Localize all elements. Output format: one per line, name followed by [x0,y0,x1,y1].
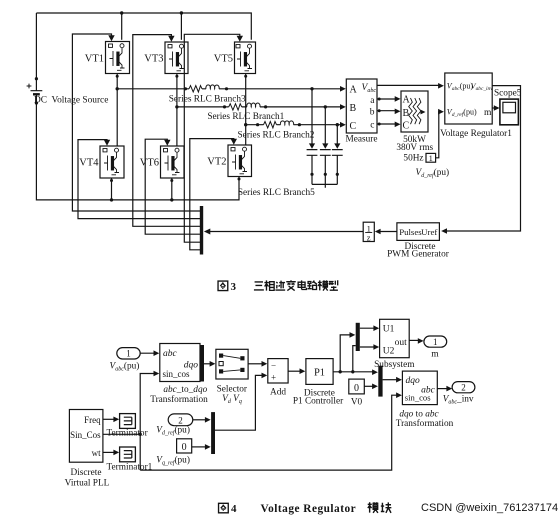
block Measure (three-phase V-I measurement) [345,79,377,145]
port output oval 2 Vabc_inv [443,382,475,406]
port input oval 1 Vabc(pu) [110,348,141,373]
resistor Series RLC Branch1 R [229,104,242,110]
svg-text:C: C [350,121,357,132]
transistor VT5 [214,42,256,74]
svg-text:C: C [403,120,410,131]
svg-text:P1: P1 [314,367,325,378]
svg-text:B: B [350,103,357,114]
svg-text:Terminator1: Terminator1 [107,462,153,472]
svg-text:Measure: Measure [345,135,377,145]
svg-text:Discrete: Discrete [71,468,102,478]
svg-text:B: B [403,108,410,119]
wire phase A to Measure [117,88,343,90]
svg-text:abc_to_dqo: abc_to_dqo [163,385,207,395]
wire mux to dqo input [383,377,402,383]
svg-text:Add: Add [270,388,286,398]
transistor VT6 [140,146,184,178]
wire phase B to Measure [177,106,343,108]
svg-text:Uref: Uref [421,227,437,237]
mux dq0 input bar [378,366,382,397]
wire VT3 collector drop [180,13,182,40]
svg-text:50Hz: 50Hz [403,153,423,163]
node cap B tap [324,105,327,108]
svg-text:Series RLC Branch2: Series RLC Branch2 [238,131,315,141]
wire Measure b to load B [377,109,401,115]
node VT5 emitter port [244,75,247,78]
svg-text:VT4: VT4 [79,158,99,169]
svg-text:Virtual PLL: Virtual PLL [65,479,110,489]
block Scope5 [494,89,522,125]
svg-text:Scope5: Scope5 [494,89,522,99]
wire gate g5 from demux to VT5 [184,34,240,242]
svg-text:V0: V0 [351,397,363,407]
wire bar to Selector [204,361,215,367]
wire constant 1 to Voltage Regulator1 Vd_ref input [436,109,444,158]
wire PWM Pulses to 1/z [375,229,397,235]
svg-text:wt: wt [92,448,101,458]
mux Subsystem input bar [356,323,360,351]
resistor Series RLC Branch2 R [264,122,277,128]
svg-text:1: 1 [433,337,438,347]
node cap A tap [310,87,313,90]
pin VT1 gate arrow [108,35,114,41]
wire DC- to emitter bus [36,103,239,200]
svg-text:1: 1 [429,153,433,163]
svg-text:Series RLC Branch3: Series RLC Branch3 [169,94,246,104]
node branch3 right port [225,87,228,90]
wire Sin_Cos long run to dq0_to_abc [140,392,402,470]
node phase B tap [175,105,178,108]
wire Sin_Cos net (to both transformations) [103,371,159,470]
battery DC Voltage Source symbol [27,79,43,103]
wire phase C to Measure [246,124,343,126]
svg-text:A: A [403,94,411,105]
resistor Series RLC Branch3 R [189,86,202,92]
svg-text:Series RLC Branch5: Series RLC Branch5 [238,188,315,198]
block Selector Vd Vq [216,349,248,405]
svg-text:sin_cos: sin_cos [405,393,431,403]
transistor VT1 [85,42,130,74]
block abc_to_dq0 Transformation [150,344,208,405]
node phase A tap [116,87,119,90]
wire phase C leg VT5-VT2 [245,74,247,145]
node VT3 emitter port [175,75,178,78]
wire gate g2 from demux to VT2 [190,139,234,250]
pin VT2 gate arrow [231,139,237,145]
block Add [268,359,288,398]
svg-text:VT6: VT6 [140,158,159,169]
block unit delay 1/z [363,222,374,242]
inductor Series RLC Branch1 L [247,103,260,107]
capacitor C phase B (Branch5) [320,107,331,184]
wire out to port oval m [409,338,423,344]
svg-text:DC Voltage Source: DC Voltage Source [34,96,108,106]
svg-text:VT2: VT2 [207,157,226,168]
wire Voltage Regulator1 m to Scope5 [492,105,499,111]
svg-text:dqo: dqo [406,376,421,386]
svg-text:P1 Controller: P1 Controller [293,396,344,406]
block Terminator1 [107,447,153,472]
svg-text:Voltage Regulator: Voltage Regulator [261,503,357,515]
wire phase A leg VT1-VT4 [116,74,118,146]
svg-text:Transformation: Transformation [150,394,208,405]
svg-text:2: 2 [178,415,183,425]
pin VT6 gate arrow [164,140,170,146]
node branch2 right port [298,123,301,126]
node DC+ terminal [35,77,38,80]
capacitor C phase A (Branch5) [307,89,318,185]
block 50kW 380V rms 50Hz load [396,91,433,163]
transistor VT4 [79,146,124,178]
block Discrete PWM Generator [387,223,450,259]
inductor Series RLC Branch2 L [280,121,293,125]
block constant 0 (V0) [349,379,365,407]
svg-text:Sin_Cos: Sin_Cos [70,430,101,440]
wire V0 to dq mux [364,384,378,390]
svg-text:m: m [484,108,492,118]
svg-text:Series RLC Branch1: Series RLC Branch1 [207,112,284,122]
svg-text:U1: U1 [383,325,395,335]
svg-text:2: 2 [461,383,466,393]
wire 1/z output to demux [204,229,363,235]
demux Demux bar (gate pulses) [200,206,203,255]
svg-text:380V rms: 380V rms [396,143,433,153]
svg-text:0: 0 [354,383,359,394]
wire PI output to dq mux [333,369,378,375]
caption figure 4 [219,502,392,515]
wire bar to U2 [360,344,379,350]
node VT2 emitter port [238,178,241,181]
node junction VT6/emitter-bus [170,198,173,201]
wire junction1 up to subsystem mux in1 [340,332,355,372]
node branch1 right port [264,105,267,108]
svg-text:Vabc_inv: Vabc_inv [443,394,474,405]
demux dq output bar [200,345,204,382]
node branch2 left port [256,123,259,126]
svg-text:−: − [271,360,276,370]
node cap C tap [336,123,339,126]
node junction bus/VT3 [180,11,183,14]
svg-text:A: A [350,85,358,96]
wire abc output to oval2 [437,386,452,392]
wire Add to PI [288,368,305,374]
svg-text:out: out [395,338,408,348]
block Voltage Regulator1 [440,73,512,139]
svg-text:c: c [370,121,374,131]
wire oval1 to abc input [140,350,160,356]
block Terminator [107,414,149,439]
node VT6 emitter port [170,179,173,182]
svg-text:Pulses: Pulses [399,227,422,237]
svg-text:0: 0 [182,442,187,453]
wire Selector to Add minus [248,361,267,367]
svg-text:m: m [431,349,439,359]
inductor Series RLC Branch3 L [206,85,219,89]
wire DC source positive lead [35,13,37,79]
wire Measure c to load C [377,122,401,128]
wire gate g3 from demux to VT3 [133,35,200,227]
svg-text:1: 1 [126,349,131,359]
block Discrete PI Controller [293,359,344,407]
svg-text:b: b [370,107,375,117]
node DC- terminal [35,101,38,104]
port input oval 2 Vd_ref [156,414,193,437]
svg-text:sin_cos: sin_cos [163,369,190,379]
caption figure 3 [218,280,338,293]
svg-text:VT1: VT1 [85,54,104,65]
wire gate g4 from demux to VT4 [78,140,200,219]
svg-text:3: 3 [231,281,237,293]
capacitor C phase C (Branch5) [332,125,343,185]
block dq0_to_abc Transformation [396,371,454,429]
wire capacitor neutral bar [312,184,337,187]
wire wt to Terminator1 [103,450,119,456]
svg-text:Freq: Freq [84,415,101,425]
wire oval2 to Vdq mux [193,417,211,423]
block Discrete Virtual PLL [65,410,110,489]
pin VT3 gate arrow [168,36,174,42]
pin Measure B input arrow [340,104,346,110]
wire Voltage Regulator1 Vabc_inv feedback to PWM Uref [441,86,520,234]
node phase C tap [244,123,247,126]
svg-text:Terminator: Terminator [107,429,149,439]
block constant 0 (Vq_ref) [156,439,191,467]
pin Measure C input arrow [340,122,346,128]
block constant 1 (Vd ref) [416,153,450,179]
wire VT6 emitter drop [171,178,173,200]
svg-text:VT3: VT3 [144,54,163,65]
node Sin_Cos junction [139,433,142,436]
svg-text:z: z [367,232,371,242]
pin Measure A input arrow [340,86,346,92]
svg-text:CSDN @weixin_761237174: CSDN @weixin_761237174 [421,502,558,514]
node branch1 left port [223,105,226,108]
wire junction2 up to subsystem mux in2 [353,346,356,372]
wire top DC+ bus [36,13,251,40]
wire Vq_ref 0 to Vdq mux [192,444,211,450]
svg-text:Voltage Regulator1: Voltage Regulator1 [440,129,512,139]
node junction VT4/emitter-bus [110,198,113,201]
svg-text:Selector: Selector [217,385,248,395]
svg-text:4: 4 [231,503,237,515]
wire VT1 collector drop [121,13,123,40]
transistor VT3 [144,42,188,74]
node PI output junction 1 [339,370,342,373]
svg-text:VT5: VT5 [214,54,233,65]
port output oval 1 m [424,336,447,359]
svg-text:Transformation: Transformation [396,418,454,429]
svg-text:+: + [271,373,276,383]
svg-text:abc: abc [163,349,178,359]
node junction bus/VT1 [120,11,123,14]
wire Freq to Terminator [103,417,119,423]
wire bar to U1 [360,325,379,331]
pin VT4 gate arrow [104,140,110,146]
wire Measure a to load A [377,96,401,102]
wire phase B leg VT3-VT6 [176,74,178,146]
wire gate g6 from demux to VT6 [145,139,200,234]
block Subsystem U1 U2 out [374,319,415,370]
wire Vdq mux to Add plus [215,373,267,431]
node branch3 left port [184,87,187,90]
mux Vdq_ref bar [211,412,215,454]
transistor VT2 [207,145,251,177]
wire gate g1 from demux to VT1 [72,34,200,211]
pin VT5 gate arrow [237,36,243,42]
wire VT4 emitter drop [111,178,113,200]
svg-text:PWM Generator: PWM Generator [387,249,450,259]
svg-text:U2: U2 [383,347,395,357]
node VT4 emitter port [110,179,113,182]
wire Measure Vabc to Voltage Regulator1 [377,83,444,89]
node VT1 emitter port [116,75,119,78]
node PI output junction 2 [351,370,354,373]
svg-text:Vabc(pu): Vabc(pu) [110,360,140,372]
